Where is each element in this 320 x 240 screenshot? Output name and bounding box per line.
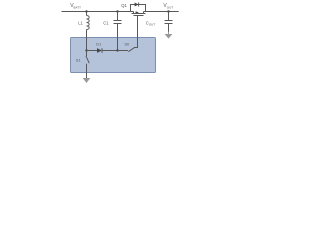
switch S1: [86, 51, 89, 79]
label S1: [76, 58, 82, 63]
capacitor COUT: [165, 12, 173, 32]
wire: VOUT top rail (right segment): [144, 11, 179, 13]
wire: Q1 gate to switch S0: [135, 16, 138, 48]
IC block (control circuit box): [71, 38, 156, 73]
svg-text:S0: S0: [124, 41, 130, 46]
svg-text:VOUT: VOUT: [163, 3, 173, 9]
label COUT: [146, 20, 156, 26]
transistor Q1 body diode: [131, 3, 146, 12]
ground (S1): [83, 78, 91, 83]
capacitor C1: [114, 12, 122, 24]
switch S0: [118, 47, 136, 52]
node: VBATT / L1 junction: [85, 10, 87, 12]
node: VOUT / COUT junction: [167, 10, 169, 12]
svg-text:Q1: Q1: [121, 3, 127, 8]
label VBATT: [70, 3, 81, 9]
label L1: [78, 20, 83, 25]
svg-text:L1: L1: [78, 20, 83, 25]
svg-text:COUT: COUT: [146, 20, 156, 26]
wire: L1 to inner node A: [86, 30, 88, 51]
label Q1: [121, 3, 127, 8]
label S0: [124, 41, 130, 46]
label C1: [103, 20, 109, 25]
label D1: [96, 41, 102, 46]
svg-text:S1: S1: [76, 58, 82, 63]
svg-text:C1: C1: [103, 20, 109, 25]
transistor Q1 (pass FET): [132, 11, 146, 15]
diode D1: [87, 48, 118, 53]
node A: L1 / D1 / S1 junction: [85, 49, 87, 51]
svg-text:VBATT: VBATT: [70, 3, 81, 9]
inductor L1: [87, 12, 90, 30]
svg-text:D1: D1: [96, 41, 102, 46]
node: VBATT / C1 junction: [116, 10, 118, 12]
ground (COUT): [165, 32, 173, 39]
label VOUT: [163, 3, 173, 9]
node B: C1 / D1 / S0 junction: [116, 49, 118, 51]
wire: VBATT top rail (left segment): [62, 11, 134, 13]
wire: C1 to switch S0 node B: [117, 24, 119, 51]
